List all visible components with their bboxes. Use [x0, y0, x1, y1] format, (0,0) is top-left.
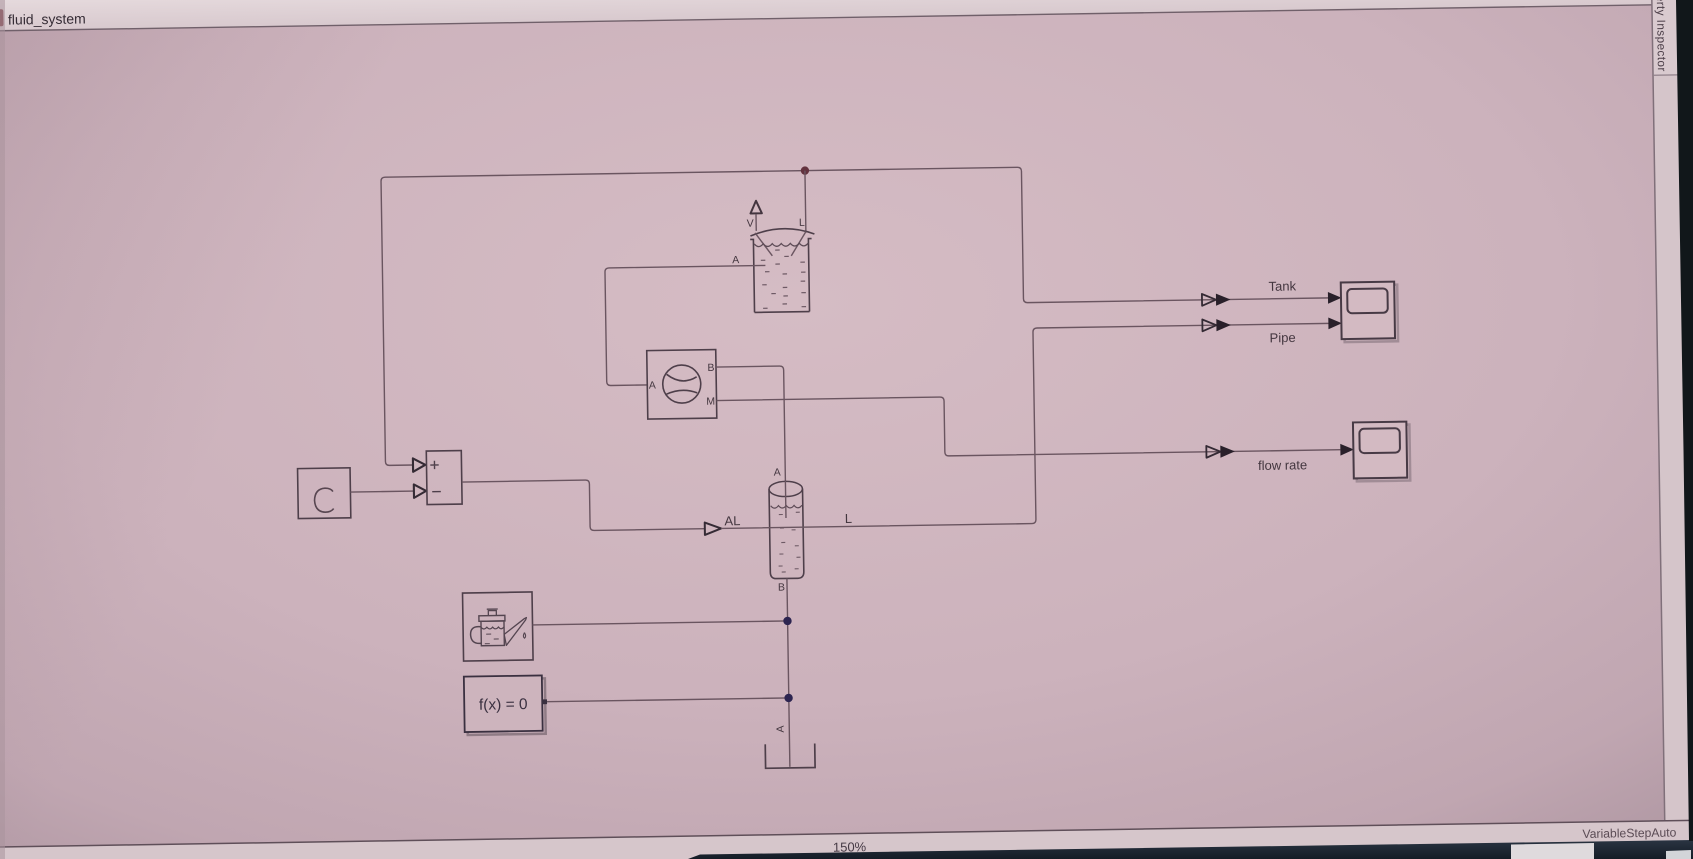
- sum input arrow +: [413, 458, 426, 472]
- svg-text:L: L: [799, 217, 805, 229]
- fluid properties block box: [463, 592, 534, 661]
- svg-text:fluid_system: fluid_system: [8, 10, 86, 27]
- wire flow sensor B to pipe A: [716, 366, 785, 482]
- tank left wall: [750, 239, 754, 312]
- editor tab bar: [0, 0, 1693, 31]
- scope1 input port arrow 2: [1328, 317, 1342, 329]
- right panel strip: [1651, 0, 1693, 859]
- scope1 screen: [1347, 288, 1388, 313]
- flow rate sensor U1 box: [647, 350, 717, 420]
- scope2 shadow: [1356, 425, 1410, 482]
- tank V port line: [755, 214, 757, 231]
- tank top arc: [750, 228, 814, 236]
- oil can lid: [479, 615, 505, 621]
- oil drop: [523, 633, 525, 639]
- scope2 block: [1353, 422, 1407, 479]
- property inspector tab bottom edge: [1653, 74, 1693, 75]
- PS subtract block: [426, 451, 462, 505]
- flow wire open arrow: [1206, 446, 1220, 458]
- scope1 shadow: [1344, 285, 1398, 342]
- status bar: [0, 820, 1693, 859]
- canvas right border: [1651, 0, 1665, 821]
- minus sign: [432, 491, 441, 493]
- windows taskbar (dark): [688, 840, 1693, 859]
- svg-text:AL: AL: [724, 513, 740, 528]
- pipe wire open arrow: [1202, 319, 1216, 331]
- tank right wall: [808, 239, 812, 312]
- tank water surface wave: [754, 243, 808, 247]
- solver port square: [542, 699, 547, 704]
- wire pipe B down to reservoir: [787, 578, 790, 766]
- taskbar item 1: [1511, 843, 1594, 859]
- wire tank L vertical: [804, 171, 807, 233]
- taskbar item 2: [1666, 850, 1691, 859]
- monitor bezel right edge: [1676, 0, 1693, 841]
- svg-text:V: V: [747, 218, 754, 230]
- tank vent triangle: [750, 201, 762, 214]
- oil can dashes: [485, 634, 499, 644]
- wire tank A to flow sensor A: [605, 265, 767, 385]
- pipe liquid dashes: [778, 512, 801, 572]
- node J2: [783, 617, 792, 626]
- svg-text:Pipe: Pipe: [1269, 330, 1295, 345]
- tank wire filled arrow: [1216, 293, 1231, 305]
- oil can body: [481, 621, 504, 646]
- scope2 screen: [1359, 428, 1400, 453]
- solver block f(x)=0: [464, 675, 543, 732]
- oil can wave: [481, 627, 504, 629]
- scope1 block: [1341, 282, 1395, 339]
- tank liquid dashes: [761, 250, 806, 309]
- scope2 input port arrow: [1340, 444, 1354, 456]
- wire solver to node J3: [547, 698, 789, 702]
- flow sensor bottom seam: [666, 390, 697, 394]
- flow sensor circle: [662, 365, 701, 404]
- sum input arrow -: [414, 484, 427, 498]
- tank bottom: [755, 311, 810, 314]
- wire sum output to pipe AL: [462, 478, 705, 532]
- wire oil can to node J2: [533, 621, 788, 625]
- C glyph: [314, 488, 333, 512]
- tab bar separator line: [0, 4, 1693, 32]
- svg-text:f(x) = 0: f(x) = 0: [479, 696, 528, 714]
- pipe A port stub: [784, 481, 787, 518]
- plus sign: [430, 461, 439, 470]
- top wire (tank loop) to tank scope: [381, 162, 1340, 465]
- pipe water wave: [771, 505, 802, 508]
- tank vent diagonal right (from L): [791, 232, 806, 256]
- svg-text:Property Inspector: Property Inspector: [1653, 0, 1669, 72]
- svg-text:A: A: [732, 254, 739, 266]
- flow wire filled arrow: [1220, 445, 1235, 457]
- oil can cap: [487, 609, 498, 615]
- AL input arrow: [705, 522, 721, 535]
- svg-text:A: A: [649, 379, 656, 391]
- pipe wire filled arrow: [1216, 319, 1231, 331]
- svg-text:Tank: Tank: [1268, 278, 1296, 293]
- solver block shadow: [467, 678, 546, 735]
- pipe cylinder body: [769, 489, 804, 579]
- property inspector tab strip: [1651, 0, 1693, 75]
- tank wire open arrow: [1202, 294, 1216, 306]
- svg-text:A: A: [775, 725, 787, 732]
- scope1 input port arrow 1: [1328, 292, 1342, 304]
- tank vent diagonal left: [755, 233, 772, 256]
- svg-text:B: B: [778, 581, 785, 593]
- pipe top ellipse: [769, 481, 803, 497]
- svg-text:A: A: [774, 467, 781, 479]
- PS constant block C: [298, 468, 351, 519]
- simulink model icon: [0, 9, 4, 26]
- wire C to sum minus input: [350, 490, 413, 493]
- reservoir: [765, 744, 815, 769]
- svg-text:B: B: [707, 362, 714, 374]
- oil can handle: [470, 627, 481, 644]
- node J1 (tank L junction): [801, 166, 810, 175]
- svg-text:L: L: [845, 511, 852, 526]
- svg-text:flow rate: flow rate: [1258, 457, 1307, 473]
- left photo edge shading: [0, 0, 5, 859]
- wire flow sensor M to flow rate scope: [717, 391, 1341, 460]
- svg-text:M: M: [706, 396, 715, 408]
- node J3: [784, 694, 793, 703]
- flow sensor top seam: [667, 374, 697, 381]
- oil can spout: [504, 618, 527, 646]
- status bar top border: [0, 820, 1693, 848]
- svg-text:VariableStepAuto: VariableStepAuto: [1582, 826, 1676, 841]
- wire pipe L to pipe scope: [718, 323, 1341, 528]
